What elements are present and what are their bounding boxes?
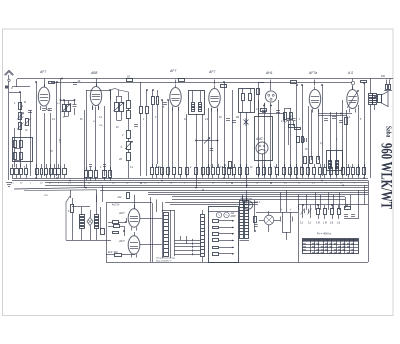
svg-text:AMP: AMP <box>231 215 237 218</box>
svg-text:+: + <box>290 207 292 211</box>
svg-text:+: + <box>281 207 283 211</box>
svg-text:1 M: 1 M <box>323 223 327 225</box>
svg-text:AF7: AF7 <box>118 239 125 243</box>
svg-text:170: 170 <box>59 138 62 143</box>
svg-text:Saba: Saba <box>384 126 392 138</box>
svg-text:AM2: AM2 <box>255 137 263 141</box>
svg-text:AH1: AH1 <box>265 71 273 75</box>
svg-text:AF7: AF7 <box>39 70 46 74</box>
svg-text:AF7: AF7 <box>169 69 176 73</box>
svg-text:Dreipunktschaltung: Dreipunktschaltung <box>156 257 176 260</box>
svg-text:AB8: AB8 <box>90 71 98 75</box>
svg-text:AF7: AF7 <box>118 211 125 215</box>
svg-text:M: M <box>24 101 26 104</box>
svg-text:A.S: A.S <box>347 71 354 75</box>
svg-text:AF7: AF7 <box>208 70 215 74</box>
svg-text:Pr = 468 kc: Pr = 468 kc <box>317 232 332 236</box>
svg-text:Entf. 220: Entf. 220 <box>108 251 118 254</box>
svg-text:4x2: 4x2 <box>118 196 123 199</box>
svg-text:Netz 110/220 V~: Netz 110/220 V~ <box>156 260 173 263</box>
svg-text:220: 220 <box>381 75 386 78</box>
svg-text:4x2 Tel: 4x2 Tel <box>112 205 120 207</box>
svg-text:2M: 2M <box>236 117 239 119</box>
svg-text:960 WLK/WT: 960 WLK/WT <box>378 143 396 209</box>
svg-text:AF7a: AF7a <box>308 71 317 75</box>
svg-text:5 M: 5 M <box>316 223 320 225</box>
